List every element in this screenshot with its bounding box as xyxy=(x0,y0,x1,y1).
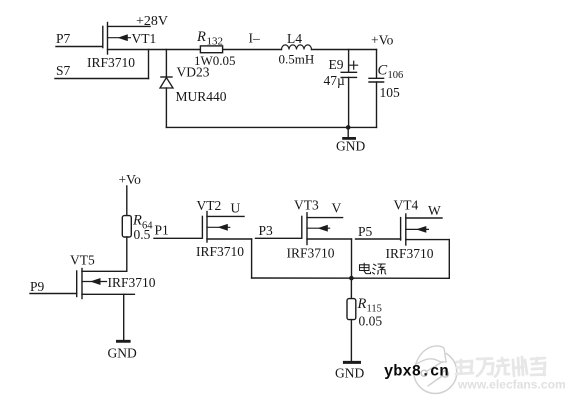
svg-text:0.05: 0.05 xyxy=(359,314,383,329)
junction dot xyxy=(346,125,351,130)
svg-text:C: C xyxy=(378,63,388,79)
svg-text:IRF3710: IRF3710 xyxy=(386,246,434,261)
svg-text:U: U xyxy=(231,201,241,216)
svg-text:P5: P5 xyxy=(358,224,373,239)
wire ground return xyxy=(166,126,376,128)
svg-text:GND: GND xyxy=(108,346,137,361)
svg-text:0.5: 0.5 xyxy=(134,227,151,242)
svg-text:W: W xyxy=(428,203,441,218)
svg-text:IRF3710: IRF3710 xyxy=(196,244,244,259)
inductor L4 xyxy=(279,31,315,67)
svg-text:VD23: VD23 xyxy=(177,65,210,80)
wire VT3 source xyxy=(307,239,352,278)
wire VT2 source xyxy=(207,239,252,278)
junction dot bus xyxy=(349,276,354,281)
node P5 xyxy=(356,224,401,239)
node P3 xyxy=(256,223,302,238)
node P9 xyxy=(30,279,77,294)
svg-text:47µ: 47µ xyxy=(324,73,346,88)
capacitor E9 xyxy=(324,50,358,128)
svg-text:R: R xyxy=(196,29,206,45)
node S7 xyxy=(55,50,149,79)
transistor Q VT3 xyxy=(287,198,343,261)
svg-text:P1: P1 xyxy=(155,223,169,238)
svg-text:132: 132 xyxy=(207,35,224,47)
svg-text:S7: S7 xyxy=(56,63,71,78)
svg-text:I–: I– xyxy=(249,31,260,46)
logo badge circle xyxy=(412,340,457,394)
svg-text:VT4: VT4 xyxy=(394,198,419,213)
svg-text:L4: L4 xyxy=(287,31,302,46)
diode VD23 xyxy=(160,50,227,128)
svg-text:+Vo: +Vo xyxy=(371,33,394,48)
ground GND top xyxy=(336,127,365,153)
ground GND R115 xyxy=(335,362,364,380)
svg-text:VT3: VT3 xyxy=(294,198,319,213)
svg-text:V: V xyxy=(332,201,342,216)
svg-text:IRF3710: IRF3710 xyxy=(108,275,156,290)
capacitor C106 xyxy=(369,50,403,128)
transistor Q VT5 xyxy=(70,253,156,299)
svg-text:P7: P7 xyxy=(56,31,71,46)
svg-text:IRF3710: IRF3710 xyxy=(287,246,335,261)
resistor R115 xyxy=(347,278,382,361)
svg-text:ybx8.cn: ybx8.cn xyxy=(384,363,449,381)
resistor R132 xyxy=(194,29,236,68)
transistor Q VT2 xyxy=(196,198,244,259)
ground GND VT5 xyxy=(108,294,137,360)
node P1 xyxy=(154,223,202,239)
wire switch node xyxy=(108,49,282,51)
svg-text:+Vo: +Vo xyxy=(119,172,142,187)
label dianliu (current) xyxy=(360,263,387,275)
wire VT4 source xyxy=(406,240,450,279)
transistor Q VT4 xyxy=(386,198,443,262)
svg-text:+28V: +28V xyxy=(136,14,168,29)
resistor R64 xyxy=(122,213,153,272)
svg-text:MUR440: MUR440 xyxy=(176,89,227,104)
transistor Q VT1 xyxy=(87,23,156,71)
svg-text:R: R xyxy=(357,296,367,312)
svg-text:P9: P9 xyxy=(30,279,45,294)
node P7 xyxy=(56,31,103,47)
svg-text:IRF3710: IRF3710 xyxy=(87,55,135,70)
wire source bus xyxy=(252,277,450,279)
svg-text:www.elecfans.com: www.elecfans.com xyxy=(457,378,565,392)
svg-text:105: 105 xyxy=(380,85,401,100)
svg-text:106: 106 xyxy=(388,70,404,81)
svg-text:P3: P3 xyxy=(259,223,274,238)
svg-text:0.5mH: 0.5mH xyxy=(279,52,315,67)
svg-text:E9: E9 xyxy=(329,57,344,72)
power +Vo rail xyxy=(119,172,142,216)
svg-text:VT1: VT1 xyxy=(132,31,157,46)
svg-text:VT2: VT2 xyxy=(197,198,222,213)
wire VT5 source xyxy=(82,293,134,295)
svg-text:GND: GND xyxy=(335,366,364,381)
svg-text:VT5: VT5 xyxy=(70,253,95,268)
svg-text:GND: GND xyxy=(336,139,365,154)
watermark elecfans characters xyxy=(456,357,545,377)
